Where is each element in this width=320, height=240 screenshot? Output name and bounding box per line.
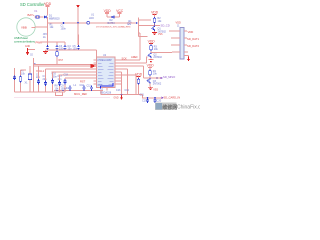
svg-text:维修网: 维修网	[162, 104, 177, 111]
capacitor C2	[46, 45, 49, 50]
svg-text:BAT+: BAT+	[28, 13, 35, 17]
wire r6 down	[138, 85, 140, 95]
connector pin stubs right	[184, 31, 188, 52]
wire q3 source	[149, 83, 151, 86]
svg-text:SD Controller: SD Controller	[20, 2, 45, 8]
capacitor C16 label	[52, 73, 58, 79]
wire battery right	[35, 26, 47, 28]
wire stage2 out	[151, 52, 172, 54]
wire bottom cap rail to MCU	[46, 50, 97, 57]
resistor R4	[149, 70, 152, 77]
resistor R4 label	[153, 70, 158, 76]
junction dot	[147, 97, 149, 99]
svg-text:LDO: LDO	[89, 17, 94, 20]
connector pin stubs left	[169, 31, 180, 52]
power symbol VDD top-left	[44, 2, 52, 6]
ground battery	[26, 48, 29, 56]
capacitor C4 label	[68, 45, 73, 51]
transistor Q2 label	[153, 53, 162, 59]
resistor R5	[56, 51, 59, 58]
wire stage1 vdd	[154, 15, 156, 17]
wire mcu row2	[46, 68, 97, 70]
mcu U2 part number	[100, 89, 112, 95]
svg-text:VCC: VCC	[116, 9, 124, 13]
power symbol VDD avcc	[135, 73, 143, 77]
power symbol VDD stage3	[147, 63, 155, 67]
svg-text:VSS: VSS	[158, 34, 163, 36]
power arrow input	[76, 5, 80, 23]
connector J1 label	[177, 26, 180, 28]
watermark logo box	[155, 103, 177, 111]
wire c7	[45, 69, 47, 92]
svg-text:RST: RST	[59, 60, 64, 62]
power symbol VCC	[116, 9, 124, 13]
wire notch	[56, 92, 63, 96]
net arrow SD_CARD_IN	[162, 95, 181, 99]
wire branch A top	[21, 69, 27, 71]
branch resistor label	[21, 70, 26, 76]
wire vcc stub	[119, 13, 121, 17]
capacitor C1 label	[61, 25, 67, 31]
ground below mcu	[120, 95, 123, 100]
wire mcu row1a	[34, 63, 97, 65]
wire xtal col vertical	[33, 58, 35, 92]
svg-text:C14: C14	[125, 89, 130, 92]
capacitor C4	[63, 45, 66, 50]
fuse F1	[36, 16, 39, 19]
power symbol VDD stage2	[148, 40, 156, 44]
svg-text:2N7002: 2N7002	[153, 83, 162, 86]
power symbol VDD stage1	[151, 11, 159, 15]
component row labels D	[87, 85, 92, 88]
capacitor C6	[37, 79, 40, 85]
wire vdd stub	[106, 13, 108, 17]
wire connector col	[171, 51, 173, 54]
component row labels C	[74, 84, 85, 87]
wire stage3 vdd	[149, 67, 151, 69]
svg-text:VDD: VDD	[135, 73, 143, 77]
wire mcu row4	[59, 74, 97, 76]
capacitor C10	[82, 86, 85, 91]
svg-text:1A: 1A	[43, 36, 46, 39]
transistor Q1	[151, 26, 154, 31]
wire stage2 vdd	[150, 43, 152, 44]
wire link AB	[100, 91, 102, 95]
wire between	[107, 16, 120, 18]
wire stage1 node	[154, 24, 156, 26]
bus inside mcu	[101, 83, 114, 89]
capacitor C3	[55, 45, 58, 50]
wire stage3 out	[144, 77, 161, 79]
diode D2 label	[108, 19, 116, 25]
regulator U1 label	[89, 14, 95, 20]
capacitor C3 label	[59, 45, 65, 51]
wire mcu r row4	[121, 69, 128, 95]
wire stage3 node	[149, 76, 151, 78]
capacitor C5 label	[73, 45, 79, 51]
capacitor C19	[146, 98, 149, 103]
diode D1	[44, 16, 47, 19]
junction dot	[154, 97, 156, 99]
transistor Q3 label	[153, 80, 162, 86]
capacitor far left	[13, 76, 16, 81]
svg-text:VBB: VBB	[21, 25, 27, 29]
resistor R6	[137, 78, 140, 85]
svg-text:EN: EN	[128, 23, 132, 26]
capacitor C20	[153, 98, 156, 103]
wire c6	[38, 66, 40, 92]
wire mcu bottom drop	[106, 88, 108, 91]
junction node	[47, 26, 49, 28]
wire below mcu A	[54, 90, 103, 92]
transistor Q3	[147, 78, 150, 83]
junction dot	[63, 22, 65, 24]
diode D1 label	[49, 15, 60, 21]
wire c16	[52, 72, 54, 92]
wire mcu r row3	[121, 66, 144, 78]
capacitor C7	[44, 81, 47, 87]
resistor R2 label	[158, 17, 163, 23]
wire c18	[64, 78, 66, 92]
wire mcu r row1	[121, 33, 140, 60]
wire stage2 node	[150, 51, 152, 53]
component row labels A	[55, 85, 60, 91]
pin circle P1	[87, 21, 90, 24]
junction gnd below mcu	[121, 94, 123, 96]
diode D2	[111, 16, 114, 19]
capacitor bank labels	[116, 89, 130, 92]
mcu U2 ref label	[103, 54, 107, 57]
svg-text:ChinaFix.com: ChinaFix.com	[177, 105, 200, 111]
junction dot	[156, 77, 158, 79]
svg-text:VDD: VDD	[44, 2, 52, 6]
resistor R3 label	[154, 45, 159, 51]
svg-text:BAT54: BAT54	[108, 22, 116, 25]
transistor Q1 label	[158, 28, 167, 34]
wire stage2 gate	[147, 57, 148, 63]
svg-text:C13: C13	[116, 89, 121, 92]
wire mcu r row6	[121, 75, 136, 95]
wire arrow drop to rail	[77, 23, 79, 45]
wire cluster bottom rail	[15, 91, 66, 93]
component row labels E	[98, 84, 103, 87]
wire mcu r row2	[121, 62, 147, 64]
svg-text:100n: 100n	[61, 27, 67, 30]
svg-text:C18: C18	[64, 73, 69, 76]
wire pin to right	[90, 22, 137, 24]
wire VDD drop	[47, 6, 49, 16]
ground stage3	[148, 86, 158, 91]
wire BAT+ to diode	[35, 16, 44, 18]
svg-text:C21: C21	[140, 93, 145, 96]
connector J1 body	[180, 28, 184, 60]
wire PWR to node	[42, 41, 58, 43]
capacitor C17	[58, 81, 61, 87]
capacitor C7 label	[43, 75, 48, 81]
battery source B1 circle	[17, 18, 35, 36]
wire r5 down	[56, 57, 58, 64]
capacitor C5	[77, 45, 80, 50]
junction dot	[34, 64, 36, 66]
capacitor C6 label	[36, 73, 41, 79]
wire below mcu B	[101, 94, 143, 96]
transistor Q2	[148, 53, 151, 58]
svg-text:MBR0520: MBR0520	[49, 18, 60, 21]
svg-text:2N7002: 2N7002	[153, 56, 162, 59]
svg-text:2N7002: 2N7002	[158, 30, 167, 33]
crystal X1 label	[25, 81, 29, 84]
resistor R2	[153, 17, 156, 24]
ground	[43, 50, 48, 54]
svg-text:PWR: PWR	[36, 40, 43, 44]
wire main left vertical	[47, 17, 49, 44]
junction dot	[154, 25, 156, 27]
junction dot	[77, 22, 79, 24]
svg-text:VDD: VDD	[151, 11, 159, 15]
ground stage1	[152, 31, 163, 36]
crystal X1	[28, 66, 32, 92]
net label EN	[128, 20, 133, 26]
power symbol VDD	[104, 9, 112, 13]
branch resistor R7	[19, 76, 22, 83]
capacitor C18 label	[64, 73, 70, 90]
resistor R1 label	[50, 23, 55, 29]
wire gnd bat	[28, 49, 36, 51]
wire branch down x57	[56, 42, 58, 44]
wire stage1 out	[139, 25, 161, 27]
wire branch A	[20, 70, 22, 92]
wire cap tops	[48, 23, 79, 45]
capacitor C18	[63, 79, 66, 85]
svg-text:GND: GND	[114, 97, 119, 99]
svg-text:VSS: VSS	[153, 89, 158, 92]
wire c9 stub	[69, 90, 71, 92]
junction dots row	[56, 90, 92, 92]
caption USB power	[14, 36, 36, 43]
mcu U2 pin stubs	[94, 60, 122, 84]
svg-text:C12: C12	[98, 84, 103, 87]
mcu U2 pin names	[98, 63, 114, 84]
capacitor C17 label	[58, 75, 63, 81]
wire far left branch	[14, 68, 16, 92]
wire faint gnd rail	[14, 97, 110, 99]
net arrow into mcu	[91, 64, 97, 68]
battery stub	[32, 26, 36, 28]
svg-text:VDD: VDD	[148, 40, 156, 44]
wire VDD rail	[48, 22, 87, 24]
capacitor C16	[51, 79, 54, 85]
svg-text:VDD: VDD	[104, 9, 112, 13]
wire pwr feed	[57, 41, 65, 43]
mcu U2 body	[97, 57, 116, 88]
wire bottom right step	[143, 95, 162, 98]
wire right column vertical	[139, 18, 152, 37]
resistor R3	[150, 45, 153, 52]
wire mcu row3	[52, 71, 97, 73]
jumper JP2 label	[43, 33, 48, 39]
capacitor C9	[68, 86, 71, 91]
wire mcu row5	[65, 77, 97, 79]
svg-text:GND: GND	[25, 46, 30, 48]
junction dot	[136, 22, 138, 24]
wire c17	[59, 75, 61, 92]
svg-text:22p: 22p	[43, 78, 48, 81]
net arrow SD_MISO	[161, 75, 176, 79]
ground stage2	[149, 58, 154, 62]
component row labels B	[61, 85, 67, 91]
svg-text:VDD: VDD	[147, 63, 155, 67]
capacitor C11	[90, 86, 93, 91]
ground connector	[184, 56, 190, 62]
wire mcu row1b	[34, 65, 91, 67]
wire avcc stub	[138, 76, 140, 78]
wire mcu r row5	[120, 72, 123, 95]
